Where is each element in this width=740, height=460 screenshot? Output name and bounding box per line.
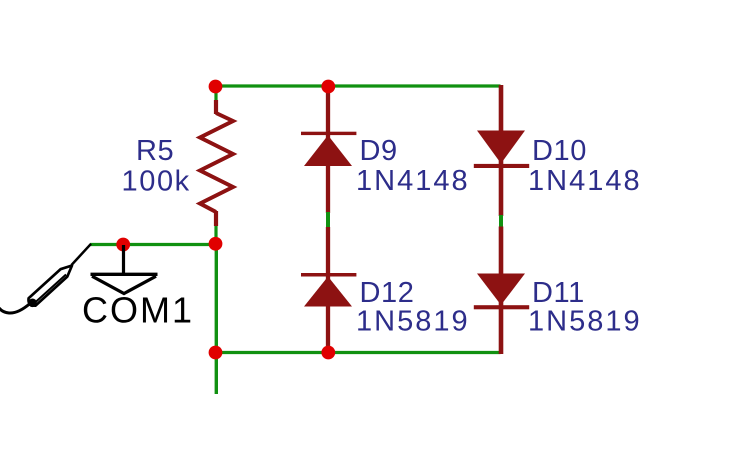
wire: middle vertical net (R5 bottom node down past bottom rail) — [215, 244, 218, 395]
svg-text:1N4148: 1N4148 — [528, 165, 642, 197]
svg-text:D11: D11 — [532, 277, 585, 309]
svg-text:D9: D9 — [360, 135, 398, 167]
svg-text:1N5819: 1N5819 — [528, 306, 642, 338]
wire: D9 column upper lead (maroon) — [326, 86, 330, 213]
diode D11 cathode bar — [474, 305, 529, 309]
wire: green joint between D9 and D12 — [326, 212, 330, 228]
svg-text:COM1: COM1 — [82, 290, 194, 331]
diode D12 cathode bar — [301, 273, 356, 277]
junction dot: COM1 tap on left wire — [116, 238, 130, 252]
probe flexible cable — [0, 304, 30, 314]
diode D12 triangle (pointing up) — [304, 277, 352, 307]
probe body inner line — [35, 275, 67, 304]
wire: top horizontal net from R5 top to D10 column — [214, 84, 501, 87]
resistor R5 zigzag body — [200, 113, 233, 212]
wire: D11 column lower lead (maroon) — [499, 227, 504, 355]
junction dot: R5 bottom node — [209, 237, 223, 251]
svg-text:D10: D10 — [532, 135, 587, 167]
svg-text:D12: D12 — [360, 277, 415, 309]
resistor R5 lead top — [214, 100, 218, 114]
wire: left horizontal net from probe to R5 bottom node — [90, 243, 217, 246]
diode D9 triangle (pointing up) — [304, 135, 352, 166]
ground COM1 vee — [92, 276, 156, 293]
diode D11 triangle (pointing down) — [477, 274, 525, 306]
svg-text:1N4148: 1N4148 — [356, 165, 470, 197]
ground COM1 top bar — [91, 273, 158, 276]
wire: green joint between D10 and D11 — [499, 215, 503, 228]
junction dot: bottom rail left — [209, 346, 223, 360]
wire: green stub above R5 bottom junction — [214, 225, 217, 244]
junction dot: bottom of D12 — [321, 346, 335, 360]
probe tip wire — [72, 244, 92, 265]
svg-text:100k: 100k — [122, 166, 191, 198]
wire: D12 column lower lead (maroon) — [326, 227, 330, 353]
probe end ferrule — [28, 299, 37, 308]
diode D10 cathode bar — [474, 164, 529, 168]
ground COM1 stem — [122, 245, 125, 274]
svg-text:1N5819: 1N5819 — [356, 306, 470, 338]
diode D10 triangle (pointing down) — [477, 131, 525, 164]
wire: D10 column upper lead (maroon) — [499, 85, 504, 216]
probe body — [28, 266, 72, 306]
wire: green stub below R5 top junction — [214, 86, 217, 101]
svg-text:R5: R5 — [136, 135, 174, 167]
wire: bottom horizontal rail — [214, 351, 501, 354]
resistor R5 lead bottom — [214, 211, 218, 226]
junction dot: top of R5 — [209, 80, 223, 94]
diode D9 cathode bar — [301, 132, 356, 135]
junction dot: top of D9 — [321, 80, 335, 94]
